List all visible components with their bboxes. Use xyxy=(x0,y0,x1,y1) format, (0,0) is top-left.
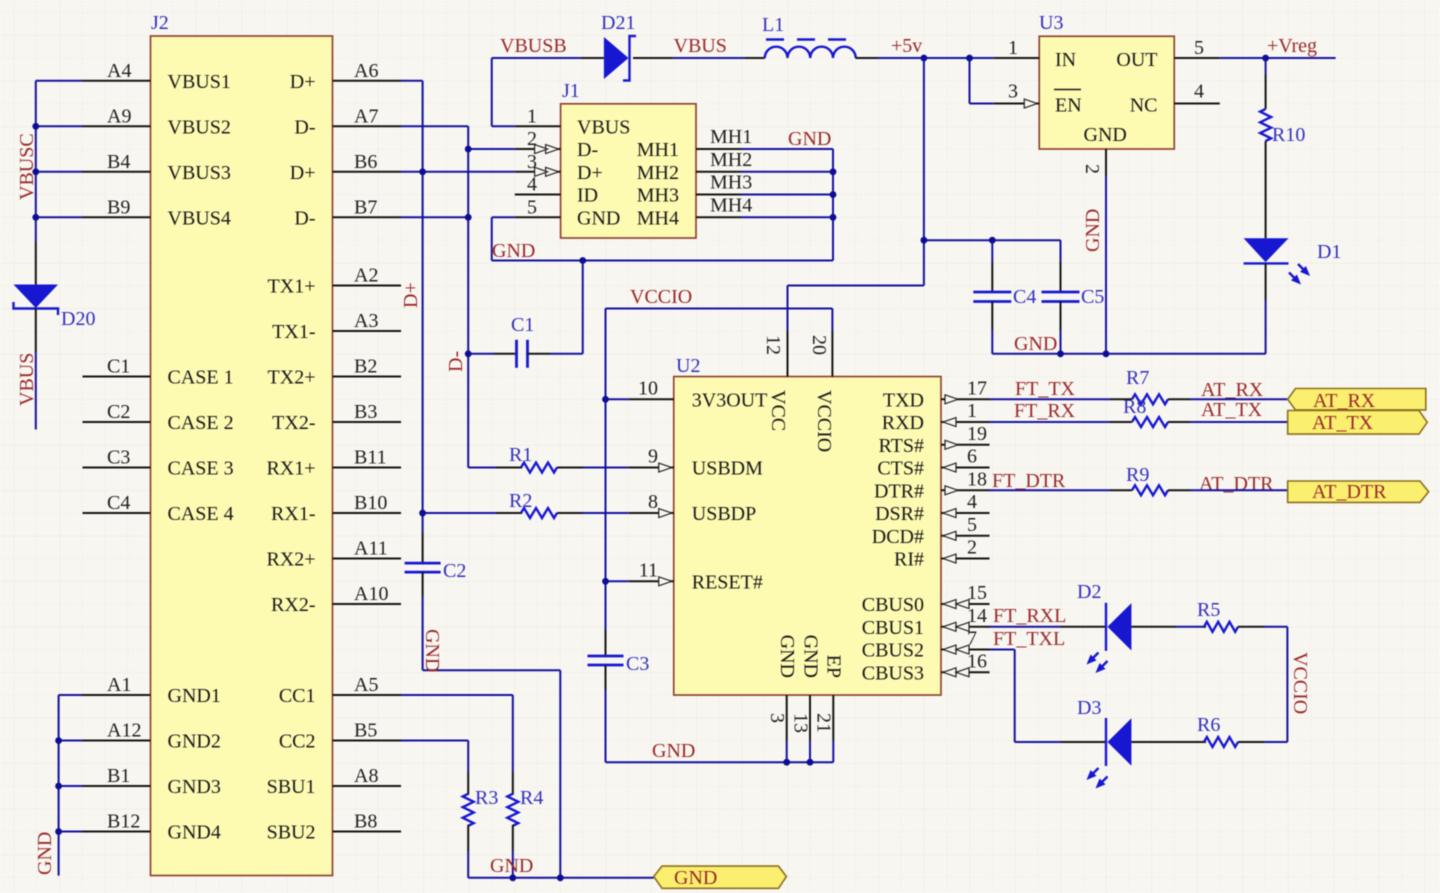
resistor R2 xyxy=(423,508,629,518)
svg-text:A5: A5 xyxy=(354,674,378,696)
net label GND (C4 C5) xyxy=(1014,333,1057,355)
svg-text:C3: C3 xyxy=(107,447,130,469)
net label VCCIO (rail) xyxy=(1289,652,1311,714)
svg-text:VBUSB: VBUSB xyxy=(500,35,567,57)
J2 pin A9 (VBUS2) xyxy=(83,105,231,138)
svg-text:B3: B3 xyxy=(354,401,377,423)
svg-text:9: 9 xyxy=(648,446,658,468)
junction C5 / GND bus xyxy=(1057,350,1064,357)
J1 pin MH1 xyxy=(637,126,752,161)
J2 pin B12 (GND4) xyxy=(83,811,221,844)
designator U2 xyxy=(676,355,700,377)
IC U2 body xyxy=(674,377,941,696)
wire U3 GND down xyxy=(1105,176,1107,354)
junction +Vreg / R10 xyxy=(1262,55,1269,62)
J2 pin B4 (VBUS3) xyxy=(83,151,231,184)
junction D- at C1 row xyxy=(465,350,472,357)
J2 pin C2 (CASE 2) xyxy=(83,401,234,434)
net label GND (under J1) xyxy=(492,240,535,262)
wire VBUSB net xyxy=(492,58,582,126)
J2 pin A4 (VBUS1) xyxy=(83,60,231,93)
svg-text:CTS#: CTS# xyxy=(877,458,924,480)
U2 pin 21 (EP) xyxy=(813,655,845,763)
svg-text:D-: D- xyxy=(577,139,598,161)
svg-text:CBUS1: CBUS1 xyxy=(862,617,924,639)
svg-text:RI#: RI# xyxy=(894,549,924,571)
svg-text:AT_DTR: AT_DTR xyxy=(1312,481,1387,503)
svg-text:USBDP: USBDP xyxy=(692,503,756,525)
designator R9 xyxy=(1126,464,1149,486)
svg-text:18: 18 xyxy=(967,468,987,490)
svg-text:A3: A3 xyxy=(354,310,378,332)
junction A9 xyxy=(32,123,39,130)
svg-text:TX1+: TX1+ xyxy=(268,276,316,298)
svg-text:11: 11 xyxy=(639,559,658,581)
svg-text:VBUS2: VBUS2 xyxy=(168,116,231,138)
svg-text:CASE 2: CASE 2 xyxy=(168,412,234,434)
svg-text:FT_RX: FT_RX xyxy=(1014,400,1076,422)
U2 pin 3 (GND) xyxy=(766,635,798,763)
net label AT_RX (wire) xyxy=(1201,379,1264,401)
svg-text:16: 16 xyxy=(967,650,987,672)
svg-text:R1: R1 xyxy=(509,444,532,466)
junction B1 xyxy=(55,783,62,790)
designator J1 xyxy=(562,80,580,102)
svg-text:D21: D21 xyxy=(601,12,635,34)
svg-text:GND: GND xyxy=(1082,209,1104,252)
J2 pin B1 (GND3) xyxy=(83,765,221,798)
svg-text:3V3OUT: 3V3OUT xyxy=(692,389,768,411)
svg-text:TXD: TXD xyxy=(883,389,924,411)
svg-text:A11: A11 xyxy=(354,538,388,560)
resistor R5 xyxy=(1176,622,1287,632)
J2 pin B11 (RX1+) xyxy=(266,447,401,480)
net label GND (U2) xyxy=(652,740,695,762)
svg-text:GND1: GND1 xyxy=(168,685,221,707)
J2 pin C3 (CASE 3) xyxy=(83,447,234,480)
svg-text:B10: B10 xyxy=(354,492,387,514)
wire D+ net vertical xyxy=(401,81,515,533)
designator D3 xyxy=(1077,697,1101,719)
U3 pin 3 (EN) xyxy=(994,81,1082,117)
svg-text:A8: A8 xyxy=(354,765,378,787)
svg-text:20: 20 xyxy=(808,335,830,355)
svg-text:C1: C1 xyxy=(511,314,534,336)
junction D+ at B6 row xyxy=(419,168,426,175)
svg-text:L1: L1 xyxy=(762,14,784,36)
svg-text:VBUS1: VBUS1 xyxy=(168,71,231,93)
designator C1 xyxy=(511,314,534,336)
port AT_TX xyxy=(1288,411,1428,435)
junction U2 pin13 / GND bus xyxy=(807,759,814,766)
svg-text:D+: D+ xyxy=(577,162,603,184)
svg-text:GND: GND xyxy=(652,740,695,762)
svg-text:15: 15 xyxy=(967,582,987,604)
U2 pin 2 (RI#) xyxy=(894,537,990,571)
svg-text:GND: GND xyxy=(674,867,717,889)
resistor R4 xyxy=(507,772,518,878)
svg-text:D20: D20 xyxy=(61,308,95,330)
U2 pin 7 (CBUS2) xyxy=(862,628,990,662)
designator R4 xyxy=(520,787,543,809)
junction 3V3OUT xyxy=(602,396,609,403)
wire R7 to port xyxy=(1190,398,1288,400)
svg-text:C5: C5 xyxy=(1081,286,1104,308)
net label VBUS (left) xyxy=(16,353,38,406)
resistor R7 xyxy=(1110,394,1190,404)
svg-text:EP: EP xyxy=(823,655,845,678)
net label FT_RX xyxy=(1014,400,1076,422)
inductor L1 xyxy=(744,40,878,59)
J1 pin 2 (D-) xyxy=(515,128,598,161)
svg-text:10: 10 xyxy=(638,377,658,399)
junction +5v / VCC feed xyxy=(921,55,928,62)
svg-text:CBUS2: CBUS2 xyxy=(862,640,924,662)
svg-text:USBDM: USBDM xyxy=(692,458,763,480)
svg-text:21: 21 xyxy=(813,713,835,733)
junction MH3 xyxy=(830,191,837,198)
wire C4/C5 top rail xyxy=(924,239,1061,241)
svg-text:AT_TX: AT_TX xyxy=(1312,412,1374,434)
wire VBUS stub below D20 xyxy=(35,352,37,430)
svg-text:VBUSC: VBUSC xyxy=(16,133,38,200)
svg-text:CBUS3: CBUS3 xyxy=(862,662,924,684)
svg-text:GND: GND xyxy=(1014,333,1057,355)
svg-text:D+: D+ xyxy=(290,162,316,184)
U3 pin 4 (NC) xyxy=(1130,81,1220,117)
net label D- xyxy=(445,351,467,372)
svg-text:AT_DTR: AT_DTR xyxy=(1199,473,1274,495)
svg-text:R8: R8 xyxy=(1123,396,1146,418)
svg-text:D3: D3 xyxy=(1077,697,1101,719)
designator C5 xyxy=(1081,286,1104,308)
capacitor C4 xyxy=(973,240,1011,354)
svg-text:B1: B1 xyxy=(107,765,130,787)
power port GND flag xyxy=(654,866,787,889)
designator R2 xyxy=(509,490,532,512)
net label GND (C2) xyxy=(421,629,443,672)
U2 pin 20 (VCCIO) xyxy=(808,331,835,452)
net label GND (bottom left) xyxy=(34,832,56,875)
svg-text:RESET#: RESET# xyxy=(692,571,763,593)
U2 pin 16 (CBUS3) xyxy=(862,650,990,684)
junction U3 GND / bus xyxy=(1103,350,1110,357)
designator D1 xyxy=(1317,241,1341,263)
svg-text:R10: R10 xyxy=(1272,124,1305,146)
J2 pin A1 (GND1) xyxy=(83,674,221,707)
junction B4 xyxy=(32,168,39,175)
U2 pin 5 (DCD#) xyxy=(872,514,990,548)
svg-text:RX2-: RX2- xyxy=(271,594,315,616)
svg-text:A12: A12 xyxy=(107,720,141,742)
svg-text:EN: EN xyxy=(1055,95,1082,117)
svg-text:OUT: OUT xyxy=(1116,49,1157,71)
svg-text:A7: A7 xyxy=(354,105,378,127)
port AT_RX xyxy=(1288,389,1426,413)
svg-text:MH1: MH1 xyxy=(637,139,679,161)
svg-text:5: 5 xyxy=(527,196,537,218)
svg-text:CBUS0: CBUS0 xyxy=(862,594,924,616)
svg-text:U2: U2 xyxy=(676,355,700,377)
net label VBUS (top) xyxy=(674,35,727,57)
U2 pin 9 (USBDM) xyxy=(628,446,763,480)
svg-text:14: 14 xyxy=(967,605,987,627)
LED D2 xyxy=(1061,603,1176,673)
J1 pin 5 (GND) xyxy=(515,196,621,229)
designator R7 xyxy=(1126,367,1149,389)
net label FT_DTR xyxy=(992,470,1066,492)
wire bottom GND bus xyxy=(468,877,654,879)
svg-text:MH2: MH2 xyxy=(637,162,679,184)
J1 pin 4 (ID) xyxy=(515,174,598,207)
svg-text:19: 19 xyxy=(967,423,987,445)
svg-text:R6: R6 xyxy=(1197,714,1220,736)
svg-text:GND: GND xyxy=(1084,124,1127,146)
junction D- at B7 row xyxy=(465,214,472,221)
svg-text:FT_RXL: FT_RXL xyxy=(993,605,1066,627)
wire FT_TXL net xyxy=(990,650,1062,742)
svg-text:+5v: +5v xyxy=(891,35,922,57)
resistor R9 xyxy=(1110,485,1190,495)
svg-text:A2: A2 xyxy=(354,265,378,287)
svg-text:B12: B12 xyxy=(107,811,140,833)
junction B9 xyxy=(32,214,39,221)
junction D- at J1 pin2 row xyxy=(465,146,472,153)
svg-text:R2: R2 xyxy=(509,490,532,512)
designator C3 xyxy=(626,653,649,675)
svg-text:DTR#: DTR# xyxy=(874,480,924,502)
U2 pin 17 (TXD) xyxy=(883,377,990,411)
U2 pin 4 (DSR#) xyxy=(875,491,989,525)
junction C2 branch / GND bus xyxy=(557,874,564,881)
svg-text:D-: D- xyxy=(294,116,315,138)
resistor R8 xyxy=(1110,417,1190,427)
U2 pin 13 (GND) xyxy=(790,635,822,763)
connector J2 body xyxy=(151,36,333,876)
J2 pin B2 (TX2+) xyxy=(268,356,401,389)
capacitor C1 xyxy=(468,261,583,368)
J2 pin A12 (GND2) xyxy=(83,720,221,753)
U3 pin 5 (OUT) xyxy=(1116,37,1219,71)
U3 pin 2 (GND) xyxy=(1081,124,1127,176)
connector J1 body xyxy=(561,104,696,238)
wire R9 to port xyxy=(1190,489,1288,491)
svg-text:FT_TX: FT_TX xyxy=(1015,378,1076,400)
svg-text:VBUS4: VBUS4 xyxy=(168,207,231,229)
svg-text:4: 4 xyxy=(527,174,537,196)
net label +Vreg xyxy=(1267,35,1317,57)
net label FT_TX xyxy=(1015,378,1076,400)
svg-text:VCCIO: VCCIO xyxy=(813,390,835,452)
svg-text:A4: A4 xyxy=(107,60,131,82)
J2 pin B5 (CC2) xyxy=(279,720,401,753)
net label AT_DTR (wire) xyxy=(1199,473,1274,495)
resistor R6 xyxy=(1176,737,1287,747)
J2 pin B10 (RX1-) xyxy=(271,492,401,525)
svg-text:R9: R9 xyxy=(1126,464,1149,486)
J1 pin 1 (VBUS) xyxy=(515,105,631,138)
svg-text:D-: D- xyxy=(294,207,315,229)
wire +5v net xyxy=(878,57,994,59)
svg-text:D+: D+ xyxy=(400,282,422,308)
J1 pin 3 (D+) xyxy=(515,151,603,184)
svg-text:B9: B9 xyxy=(107,196,130,218)
designator U3 xyxy=(1039,12,1063,34)
designator R5 xyxy=(1197,599,1220,621)
capacitor C3 xyxy=(588,630,624,762)
J1 pin MH3 xyxy=(637,172,752,207)
svg-text:MH3: MH3 xyxy=(710,172,752,194)
designator C2 xyxy=(443,560,466,582)
svg-text:VBUS: VBUS xyxy=(577,116,630,138)
svg-text:C1: C1 xyxy=(107,356,130,378)
junction B12 xyxy=(55,828,62,835)
svg-text:RXD: RXD xyxy=(882,412,924,434)
svg-text:C2: C2 xyxy=(107,401,130,423)
svg-text:12: 12 xyxy=(762,335,784,355)
net label FT_RXL xyxy=(993,605,1066,627)
svg-text:AT_RX: AT_RX xyxy=(1201,379,1264,401)
designator C4 xyxy=(1013,286,1036,308)
svg-text:D2: D2 xyxy=(1077,581,1101,603)
svg-text:C3: C3 xyxy=(626,653,649,675)
junction D+ at R2 row xyxy=(419,510,426,517)
svg-text:IN: IN xyxy=(1055,49,1076,71)
junction MH4 xyxy=(830,214,837,221)
svg-text:GND: GND xyxy=(788,128,831,150)
resistor R1 xyxy=(468,463,628,473)
svg-text:R4: R4 xyxy=(520,787,543,809)
svg-text:VBUS: VBUS xyxy=(674,35,727,57)
svg-text:RX2+: RX2+ xyxy=(266,549,315,571)
svg-text:R3: R3 xyxy=(475,787,498,809)
svg-text:B5: B5 xyxy=(354,720,377,742)
svg-text:R7: R7 xyxy=(1126,367,1149,389)
svg-text:VCC: VCC xyxy=(767,390,789,431)
svg-text:A9: A9 xyxy=(107,105,131,127)
svg-text:TX1-: TX1- xyxy=(272,321,315,343)
svg-text:D-: D- xyxy=(445,351,467,372)
wire VCC feed xyxy=(788,58,924,331)
svg-text:MH3: MH3 xyxy=(637,185,679,207)
svg-text:5: 5 xyxy=(967,514,977,536)
diode D21 xyxy=(582,36,674,81)
svg-text:4: 4 xyxy=(1194,81,1204,103)
U2 pin 10 (3V3OUT) xyxy=(628,377,767,411)
wire CC1 net to R4 xyxy=(401,695,513,772)
svg-text:GND: GND xyxy=(577,207,620,229)
svg-text:GND: GND xyxy=(34,832,56,875)
junction U2 pin3 / GND bus xyxy=(783,759,790,766)
J2 pin A7 (D-) xyxy=(294,105,401,138)
svg-text:DSR#: DSR# xyxy=(875,503,924,525)
svg-text:VBUS3: VBUS3 xyxy=(168,162,231,184)
svg-text:GND: GND xyxy=(800,635,822,678)
svg-text:GND4: GND4 xyxy=(168,822,221,844)
svg-text:1: 1 xyxy=(527,105,537,127)
designator R1 xyxy=(509,444,532,466)
wire R8 to port xyxy=(1190,421,1288,423)
svg-text:6: 6 xyxy=(967,446,977,468)
J1 pin MH4 xyxy=(637,194,752,229)
svg-text:GND3: GND3 xyxy=(168,776,221,798)
J2 pin A5 (CC1) xyxy=(279,674,401,707)
designator R6 xyxy=(1197,714,1220,736)
svg-text:3: 3 xyxy=(766,713,788,723)
port AT_DTR xyxy=(1288,481,1429,503)
svg-text:C4: C4 xyxy=(1013,286,1036,308)
svg-text:FT_DTR: FT_DTR xyxy=(992,470,1066,492)
J2 pin A11 (RX2+) xyxy=(266,538,401,571)
svg-text:B7: B7 xyxy=(354,196,377,218)
J1 pin MH2 xyxy=(637,149,752,184)
svg-text:FT_TXL: FT_TXL xyxy=(993,628,1065,650)
wire CC2 net to R3 xyxy=(401,741,468,772)
net label FT_TXL xyxy=(993,628,1065,650)
svg-text:CASE 4: CASE 4 xyxy=(168,503,234,525)
J2 pin B9 (VBUS4) xyxy=(83,196,231,229)
diode D20 xyxy=(14,242,59,352)
net label AT_TX (wire) xyxy=(1201,399,1263,421)
wire D- net vertical xyxy=(401,126,515,467)
U2 pin 8 (USBDP) xyxy=(628,491,756,525)
regulator U3 body xyxy=(1039,36,1174,149)
svg-text:B11: B11 xyxy=(354,447,387,469)
U2 pin 19 (RTS#) xyxy=(879,423,990,457)
svg-text:DCD#: DCD# xyxy=(872,526,924,548)
svg-text:VCCIO: VCCIO xyxy=(630,286,692,308)
U3 pin 1 (IN) xyxy=(994,37,1076,71)
capacitor C5 xyxy=(1042,240,1080,354)
svg-text:D1: D1 xyxy=(1317,241,1341,263)
svg-text:TX2+: TX2+ xyxy=(268,367,316,389)
junction MH2 xyxy=(830,168,837,175)
svg-text:2: 2 xyxy=(1081,164,1103,174)
U2 pin 11 (RESET#) xyxy=(628,559,763,593)
svg-text:CASE 3: CASE 3 xyxy=(168,458,234,480)
J2 pin A2 (TX1+) xyxy=(268,265,401,298)
wire C2 to GND bus xyxy=(423,596,561,878)
svg-text:4: 4 xyxy=(967,491,977,513)
J2 pin C1 (CASE 1) xyxy=(83,356,234,389)
J2 pin A8 (SBU1) xyxy=(267,765,401,798)
J2 pin B3 (TX2-) xyxy=(272,401,401,434)
svg-text:SBU2: SBU2 xyxy=(267,822,316,844)
net label GND (above bus) xyxy=(490,855,533,877)
svg-text:+Vreg: +Vreg xyxy=(1267,35,1317,57)
LED D1 xyxy=(1244,238,1310,353)
svg-text:GND2: GND2 xyxy=(168,731,221,753)
net label VBUSB xyxy=(500,35,567,57)
designator J2 xyxy=(151,12,169,34)
svg-text:GND: GND xyxy=(492,240,535,262)
junction R4 / GND bus xyxy=(509,874,516,881)
svg-text:VBUS: VBUS xyxy=(16,353,38,406)
resistor R10 xyxy=(1260,58,1271,238)
svg-text:RX1+: RX1+ xyxy=(266,458,315,480)
svg-text:1: 1 xyxy=(1008,37,1018,59)
LED D3 xyxy=(1061,718,1176,789)
wire VBUS to L1 xyxy=(673,57,744,59)
wire U2 GND bus xyxy=(606,761,834,763)
junction RESET# xyxy=(602,578,609,585)
net label D+ xyxy=(400,282,422,308)
svg-text:B8: B8 xyxy=(354,811,377,833)
resistor R3 xyxy=(463,772,474,878)
J2 pin A10 (RX2-) xyxy=(271,583,401,616)
junction C1 right / GND bus xyxy=(579,257,586,264)
U2 pin 15 (CBUS0) xyxy=(862,582,990,616)
